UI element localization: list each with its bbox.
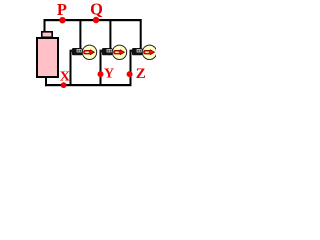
svg-text:P: P xyxy=(57,0,67,19)
svg-text:Q: Q xyxy=(90,0,103,18)
svg-text:Z: Z xyxy=(136,66,146,82)
svg-text:X: X xyxy=(60,70,70,85)
svg-text:Y: Y xyxy=(104,67,114,82)
